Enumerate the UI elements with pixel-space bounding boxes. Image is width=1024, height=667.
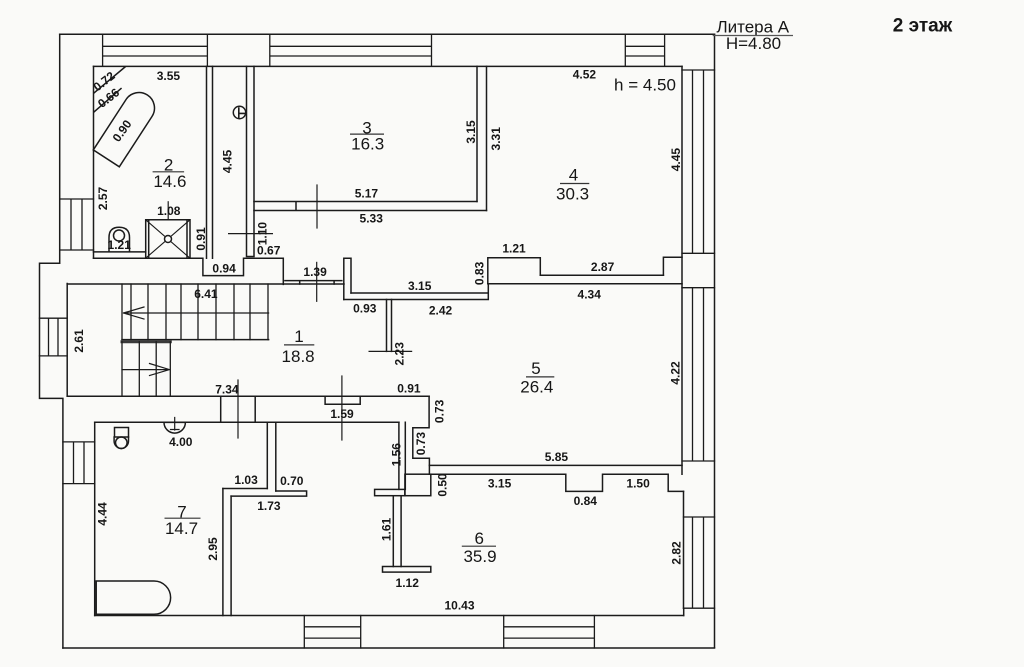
stairs upper flight treads: [122, 284, 268, 340]
tick dim 5.17: [316, 185, 318, 228]
wall block 1.21: [488, 258, 541, 284]
dim 3.15 rotated: [464, 120, 478, 144]
svg-text:4.34: 4.34: [578, 287, 602, 301]
wall room1 right (double): [387, 300, 392, 352]
tick dim 2.23: [369, 350, 412, 352]
wire left inner face room7: [94, 422, 96, 615]
wire top inner wall face: [94, 65, 683, 67]
dim 0.90 diagonal: [110, 117, 135, 144]
wire right inner face lower: [683, 491, 685, 608]
tick dim 7.34 left: [237, 380, 239, 438]
svg-text:1.21: 1.21: [502, 241, 526, 255]
svg-text:3.15: 3.15: [488, 477, 512, 491]
window top T2: [270, 34, 432, 66]
svg-text:6.41: 6.41: [194, 287, 218, 301]
svg-text:3.15: 3.15: [464, 120, 478, 144]
wall room3/room4 divider (double): [477, 66, 487, 210]
toilet room2: [109, 227, 130, 252]
wire right inner face bottom: [683, 608, 685, 615]
svg-text:4.44: 4.44: [96, 502, 110, 526]
wall room7 right partition upper (double): [267, 422, 276, 491]
wire right outer wall: [714, 34, 716, 647]
dim 1.61 rotated: [380, 517, 394, 541]
svg-text:14.6: 14.6: [153, 172, 186, 191]
wall room6 top with 0.84 recess and 1.50 segment: [431, 474, 684, 491]
column I-beam bottom flange: [383, 567, 431, 573]
towel dryer T mark: [239, 108, 246, 118]
svg-text:0.94: 0.94: [212, 262, 236, 276]
window left L1: [60, 199, 93, 250]
wall room2 bottom outer with door niche 0.94: [94, 258, 284, 284]
shower diagonals: [146, 220, 190, 258]
svg-text:0.84: 0.84: [574, 494, 598, 508]
wire left inner face room1: [66, 284, 68, 397]
wall shaft right / room3 left (double): [247, 66, 255, 256]
stairs upper walk line with left arrow: [124, 307, 269, 319]
wall room7 right (double): [223, 489, 231, 616]
window bottom B1: [304, 616, 360, 649]
dim 0.73 upper rotated: [432, 399, 446, 423]
svg-text:4.52: 4.52: [573, 68, 597, 82]
tick dim 1.10: [229, 233, 273, 235]
wall diagonal niche room2: [94, 67, 125, 112]
tick dim 7.34 right: [341, 376, 343, 440]
svg-text:1.56: 1.56: [390, 443, 404, 467]
dim 2.57 rotated: [96, 186, 110, 210]
wire right inner face room4: [681, 66, 683, 474]
svg-text:1.73: 1.73: [257, 499, 281, 513]
door jambs room1-room7: [221, 396, 256, 422]
dim 0.66 diagonal: [95, 85, 122, 111]
wall 1.56 (double): [399, 422, 405, 489]
dim 4.44 rotated: [96, 502, 110, 526]
window right R2: [682, 288, 715, 461]
svg-text:0.70: 0.70: [280, 474, 304, 488]
svg-text:5.85: 5.85: [545, 450, 569, 464]
door sill 1.59: [325, 396, 360, 404]
wire bottom outer wall: [63, 647, 715, 649]
wall room2 right (double): [207, 66, 213, 258]
window left L3: [63, 442, 95, 484]
svg-text:2.57: 2.57: [96, 186, 110, 210]
svg-text:h = 4.50: h = 4.50: [614, 76, 676, 95]
wall room5 southwest notch 0.73 steps: [413, 396, 430, 474]
wall room1/room7 divider: [67, 396, 429, 422]
dim 1.56 rotated: [390, 443, 404, 467]
wire left outer wall upper: [40, 34, 63, 648]
sink room7 (semicircle): [164, 422, 185, 433]
svg-text:1: 1: [294, 327, 303, 346]
dim 0.91 shower rotated: [194, 227, 208, 251]
wall room3 bottom (double): [254, 202, 487, 211]
room 6 fraction line: [462, 545, 496, 547]
dim 4.22 rotated: [669, 361, 683, 385]
room 2 fraction line: [153, 171, 185, 173]
sink room7 tap marks: [171, 418, 180, 431]
svg-text:10.43: 10.43: [444, 599, 474, 613]
wall room4/room5 (double): [488, 275, 682, 283]
svg-text:1.21: 1.21: [108, 238, 132, 252]
towel dryer circle symbol: [233, 106, 245, 118]
svg-text:3.55: 3.55: [157, 69, 181, 83]
window bottom B2: [504, 616, 595, 649]
toilet room2 cistern circle: [114, 230, 125, 241]
stairs lower walk line with right arrow: [122, 364, 170, 376]
svg-text:4: 4: [569, 166, 578, 185]
window top T1: [103, 34, 208, 66]
svg-text:6: 6: [474, 529, 483, 548]
svg-text:2 этаж: 2 этаж: [893, 16, 953, 37]
wall pier at right wall: [663, 257, 682, 275]
svg-text:2.23: 2.23: [392, 342, 406, 366]
svg-text:0.73: 0.73: [414, 432, 428, 456]
toilet room7 cistern: [115, 428, 129, 438]
toilet room7 bowl circle: [116, 437, 128, 449]
dim 2.95 rotated: [206, 537, 220, 561]
svg-text:Н=4.80: Н=4.80: [726, 34, 781, 53]
svg-text:0.83: 0.83: [472, 261, 486, 285]
svg-text:5: 5: [531, 359, 540, 378]
header underline: [713, 35, 793, 37]
window top T3: [625, 34, 664, 66]
dim 0.50 rotated: [435, 473, 449, 497]
dim 1.10 rotated: [255, 222, 269, 246]
window right R3: [684, 517, 715, 608]
window left L2: [40, 318, 68, 356]
svg-text:1.12: 1.12: [396, 576, 420, 590]
svg-text:0.93: 0.93: [353, 302, 377, 316]
wall corridor/room5 divider (double): [344, 284, 489, 300]
column I-beam stem (double): [393, 496, 401, 567]
door sill 1.39: [285, 281, 342, 284]
svg-text:1.61: 1.61: [380, 517, 394, 541]
wall block 0.50: [405, 474, 431, 496]
svg-text:5.33: 5.33: [360, 212, 384, 226]
svg-text:4.45: 4.45: [669, 148, 683, 172]
svg-text:0.73: 0.73: [432, 399, 446, 423]
stairs upper flight bottom edge: [122, 339, 269, 341]
svg-text:16.3: 16.3: [351, 135, 384, 154]
wire corridor top line: [67, 283, 344, 285]
svg-text:1.59: 1.59: [330, 407, 354, 421]
dim 2.82 rotated: [670, 541, 684, 565]
svg-text:2.42: 2.42: [429, 303, 453, 317]
window right R1: [682, 70, 715, 253]
svg-text:0.91: 0.91: [397, 381, 421, 395]
room 3 fraction line: [350, 133, 384, 135]
dim 4.45 right rotated: [669, 148, 683, 172]
svg-text:1.39: 1.39: [303, 265, 327, 279]
svg-text:1.50: 1.50: [626, 477, 650, 491]
shower drain circle: [165, 236, 172, 243]
svg-text:18.8: 18.8: [282, 347, 315, 366]
wire left inner face room2: [93, 66, 95, 258]
svg-text:3.15: 3.15: [408, 279, 432, 293]
wall stub right of 1.39 (double, capped): [344, 258, 351, 299]
svg-text:5.17: 5.17: [355, 187, 379, 201]
svg-text:26.4: 26.4: [520, 378, 553, 397]
toilet room7 bowl: [114, 437, 128, 448]
tick dim 1.08 shower: [167, 202, 169, 220]
dim 2.61 rotated: [72, 329, 86, 353]
svg-text:0.91: 0.91: [194, 227, 208, 251]
wall shelf 1.03/0.70/1.73: [223, 489, 307, 497]
bathtub room7: [96, 581, 170, 614]
svg-text:1.03: 1.03: [234, 473, 258, 487]
svg-text:0.50: 0.50: [435, 473, 449, 497]
svg-text:2.61: 2.61: [72, 329, 86, 353]
wall room2 bottom inner: [94, 251, 146, 253]
svg-text:4.00: 4.00: [169, 435, 193, 449]
svg-text:35.9: 35.9: [463, 547, 496, 566]
dim 0.72 diagonal: [91, 69, 118, 95]
svg-text:1.08: 1.08: [157, 204, 181, 218]
tick dim 1.39: [316, 262, 318, 301]
wire bottom inner wall face: [95, 615, 684, 617]
svg-text:2.82: 2.82: [670, 541, 684, 565]
svg-text:4.22: 4.22: [669, 361, 683, 385]
wire top outer wall: [60, 33, 715, 35]
wall room5 bottom: [429, 464, 682, 466]
shower tray room2: [146, 220, 190, 258]
dim 3.31 rotated: [489, 127, 503, 151]
svg-text:4.45: 4.45: [221, 149, 235, 173]
svg-text:1.10: 1.10: [255, 222, 269, 246]
room 1 fraction line: [284, 344, 314, 346]
room 7 fraction line: [165, 517, 201, 519]
stairs landing edge (thick): [122, 340, 170, 343]
stairs lower flight treads: [122, 342, 170, 396]
svg-text:2.95: 2.95: [206, 537, 220, 561]
dim 0.73 lower rotated: [414, 432, 428, 456]
column I-beam top flange: [375, 489, 405, 495]
room 4 fraction line: [560, 183, 589, 185]
svg-text:3.31: 3.31: [489, 127, 503, 151]
room 5 fraction line: [526, 376, 554, 378]
svg-text:14.7: 14.7: [165, 519, 198, 538]
dim 2.23 rotated: [392, 342, 406, 366]
dim 4.45 shaft rotated: [221, 149, 235, 173]
bathtub room2 (rotated): [93, 87, 160, 167]
svg-text:7.34: 7.34: [215, 383, 239, 397]
dim 0.83 rotated: [472, 261, 486, 285]
svg-text:30.3: 30.3: [556, 185, 589, 204]
svg-text:2.87: 2.87: [591, 260, 615, 274]
